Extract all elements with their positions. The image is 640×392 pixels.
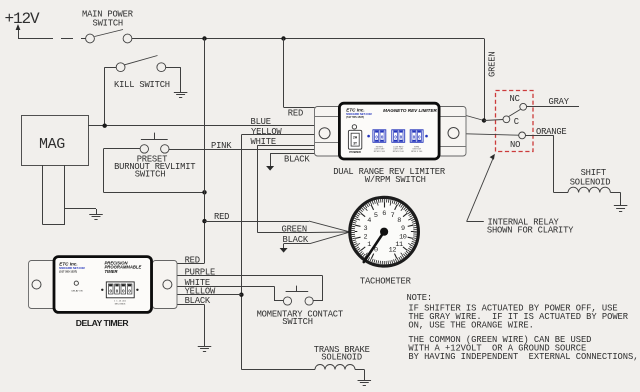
svg-text:1 1 .01 .001: 1 1 .01 .001 (114, 301, 127, 303)
svg-text:BLUE: BLUE (251, 117, 271, 127)
svg-text:SWITCH: SWITCH (282, 317, 312, 327)
svg-text:DELAY TIMER: DELAY TIMER (76, 318, 130, 328)
svg-text:ORANGE: ORANGE (536, 127, 566, 137)
svg-text:5: 5 (374, 212, 378, 220)
svg-text:BY HAVING INDEPENDENT EXTERNA: BY HAVING INDEPENDENT EXTERNAL CONNECTIO… (408, 352, 638, 362)
svg-text:WHITE: WHITE (251, 137, 276, 147)
svg-text:PINK: PINK (211, 141, 232, 151)
svg-text:SWITCH: SWITCH (135, 169, 165, 179)
svg-text:MAG: MAG (39, 136, 65, 153)
svg-text:RPM X 100: RPM X 100 (393, 151, 405, 153)
svg-text:RPM X 100: RPM X 100 (374, 151, 386, 153)
svg-text:ON, USE THE ORANGE WIRE.: ON, USE THE ORANGE WIRE. (408, 321, 534, 331)
svg-text:(517 555-1537): (517 555-1537) (59, 269, 77, 273)
svg-text:NOTE:: NOTE: (407, 293, 432, 303)
svg-text:RED: RED (214, 212, 229, 222)
svg-text:MAGNETO REV LIMITER: MAGNETO REV LIMITER (383, 108, 437, 113)
svg-text:SOLENOID: SOLENOID (570, 178, 611, 188)
svg-text:3T: 3T (353, 141, 357, 145)
svg-text:9: 9 (401, 225, 405, 233)
svg-text:2H: 2H (353, 135, 358, 139)
svg-text:RED: RED (288, 109, 303, 119)
svg-text:11: 11 (395, 241, 403, 249)
svg-text:KILL SWITCH: KILL SWITCH (114, 80, 170, 90)
svg-text:ETC Inc.: ETC Inc. (346, 108, 364, 113)
svg-text:PURPLE: PURPLE (185, 267, 215, 277)
svg-text:1: 1 (367, 241, 371, 249)
svg-text:SHOWN FOR CLARITY: SHOWN FOR CLARITY (487, 225, 574, 235)
svg-text:YELLOW: YELLOW (251, 127, 282, 137)
svg-text:+12V: +12V (5, 10, 41, 28)
svg-text:BLACK: BLACK (283, 235, 309, 245)
svg-text:RED: RED (185, 255, 200, 265)
svg-text:3: 3 (364, 225, 368, 233)
svg-text:GRAY: GRAY (549, 97, 570, 107)
svg-text:SWITCH: SWITCH (93, 19, 123, 29)
svg-text:W/RPM SWITCH: W/RPM SWITCH (365, 175, 426, 185)
svg-text:C: C (514, 117, 519, 127)
svg-text:GREEN: GREEN (282, 224, 307, 234)
svg-text:NC: NC (510, 94, 520, 104)
svg-text:POWER: POWER (349, 150, 361, 154)
svg-text:6: 6 (382, 210, 386, 218)
svg-text:4: 4 (367, 217, 371, 225)
svg-text:(517 555-1537): (517 555-1537) (346, 115, 364, 119)
svg-text:SOLENOID: SOLENOID (321, 352, 362, 362)
svg-text:RPM X 100: RPM X 100 (411, 151, 423, 153)
svg-text:BLACK: BLACK (185, 296, 211, 306)
svg-text:12: 12 (389, 246, 397, 254)
svg-text:2: 2 (364, 233, 368, 241)
svg-text:YELLOW: YELLOW (185, 287, 216, 297)
svg-text:GREEN: GREEN (488, 52, 498, 77)
svg-text:NO: NO (510, 140, 520, 150)
svg-text:BLACK: BLACK (284, 155, 310, 165)
svg-text:7: 7 (391, 212, 395, 220)
svg-text:SECONDS: SECONDS (115, 304, 126, 306)
svg-text:TIMER: TIMER (105, 269, 118, 274)
svg-text:DELAY ON: DELAY ON (72, 289, 83, 292)
svg-text:TACHOMETER: TACHOMETER (360, 277, 412, 287)
svg-text:ETC Inc.: ETC Inc. (59, 261, 77, 266)
